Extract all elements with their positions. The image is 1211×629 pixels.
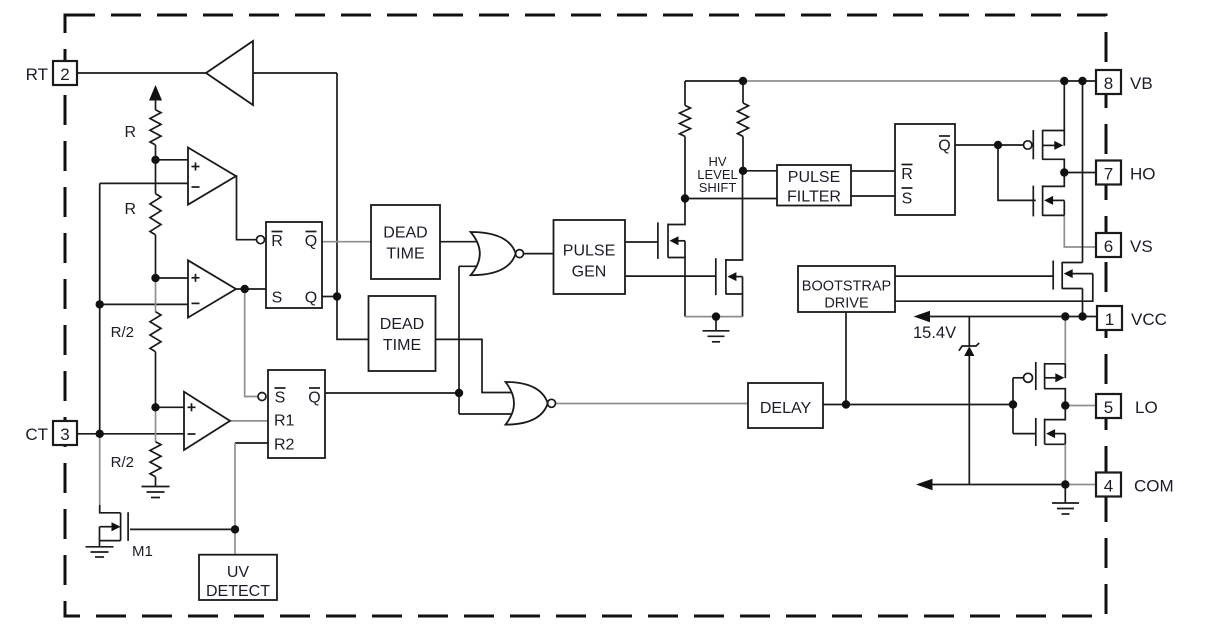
- wire LO gate node verticals: [1013, 377, 1024, 379]
- transistor HO P-FET high side: [1032, 130, 1034, 159]
- wire CT pin to comparator3 - input: [77, 433, 184, 435]
- svg-text:COM: COM: [1134, 477, 1174, 496]
- gate NOR1: [471, 232, 516, 275]
- wire latch1 Qbar to DEAD TIME 1: [322, 241, 371, 243]
- svg-text:Q: Q: [305, 233, 317, 250]
- wire rail node down to DEAD TIME 2 input: [337, 297, 369, 340]
- transistor level-shift FET A: [657, 222, 659, 259]
- svg-text:VS: VS: [1130, 237, 1153, 256]
- svg-text:DEAD: DEAD: [383, 225, 427, 242]
- pin 7 HO: [1096, 161, 1121, 185]
- wire VCC line: [930, 316, 1099, 318]
- svg-text:R: R: [271, 233, 283, 250]
- zener diode 15.4V: [968, 317, 970, 347]
- wire comparator3 output to latch2 R1 input: [230, 420, 268, 422]
- wire latch2 R2 input: [235, 442, 268, 444]
- wire vertical rail buffer input to latch Q: [336, 73, 338, 297]
- wire comparator2 - input: [100, 303, 188, 305]
- svg-text:1: 1: [1105, 310, 1114, 329]
- wire level shift sources to ground: [685, 316, 743, 318]
- svg-text:5: 5: [1104, 398, 1113, 417]
- transistor LO N-FET: [1035, 418, 1037, 446]
- wire HO output node to pin 7: [1064, 172, 1096, 174]
- wire comparator2 output node down to latch2 Sbar bubble: [245, 289, 258, 397]
- pin 6 VS: [1096, 233, 1121, 257]
- svg-text:R: R: [901, 166, 913, 183]
- wire LO N-FET source down to COM: [1064, 444, 1066, 484]
- wire PULSE FILTER to latch3 Rbar: [851, 170, 895, 172]
- block PULSE FILTER: [777, 165, 851, 206]
- wire bootstrap drive upper output to bootstrap FET gate: [895, 275, 1053, 277]
- ground at COM node: [1064, 485, 1066, 503]
- comparator 1: [188, 148, 236, 205]
- wire HO N-FET gate: [998, 145, 1036, 200]
- block UV DETECT: [199, 555, 277, 600]
- resistor R/2 (lower): [155, 407, 157, 441]
- block DEAD TIME 2: [369, 296, 436, 371]
- svg-text:HO: HO: [1130, 165, 1156, 184]
- svg-text:15.4V: 15.4V: [913, 324, 956, 342]
- wire buffer input from rail: [253, 72, 337, 74]
- svg-text:2: 2: [60, 65, 69, 84]
- pin 4 COM: [1096, 473, 1121, 497]
- bootstrap rail VB to VCC: [1082, 81, 1084, 263]
- svg-text:DEAD: DEAD: [380, 316, 424, 333]
- resistor HV left: [684, 81, 686, 105]
- latch U3 (RS latch 2 with R1 R2): [268, 370, 325, 458]
- svg-text:PULSE: PULSE: [563, 243, 615, 260]
- wire latch2 Qbar output: [325, 392, 459, 394]
- svg-text:M1: M1: [132, 543, 153, 560]
- gate NOR2: [506, 382, 548, 425]
- wire COM line: [932, 484, 1066, 486]
- wire PULSE GEN output 2 to level shift FET B gate: [625, 275, 716, 277]
- svg-text:LO: LO: [1135, 398, 1158, 417]
- svg-text:S: S: [275, 390, 286, 407]
- resistor HV right: [742, 81, 744, 103]
- wire NOR1 input 2 from latch2 Qbar rail: [459, 265, 481, 267]
- svg-text:8: 8: [1104, 74, 1113, 93]
- left feedback rail comparator minus inputs: [99, 183, 101, 433]
- pin 3 CT: [53, 421, 77, 445]
- block DELAY: [748, 383, 823, 428]
- transistor LO P-FET: [1035, 362, 1037, 390]
- svg-text:Q: Q: [308, 390, 320, 407]
- svg-text:DETECT: DETECT: [206, 583, 270, 600]
- wire right resistor node to PULSE FILTER top input: [743, 170, 777, 172]
- wire VS from HO N-FET source to pin 6: [1064, 215, 1096, 247]
- wire latch1 Q output to rail: [322, 296, 337, 298]
- comparator 2: [188, 260, 236, 317]
- transistor HO N-FET: [1032, 186, 1034, 217]
- latch U2 (RS latch 1): [266, 222, 322, 308]
- pin 1 VCC: [1097, 306, 1122, 330]
- svg-text:UV: UV: [227, 564, 250, 581]
- wire R2 node down to UV detect node: [234, 443, 236, 529]
- buffer U1 (RT oscillator buffer): [206, 41, 253, 105]
- svg-text:R2: R2: [274, 437, 295, 454]
- wire PULSE FILTER to latch3 Sbar: [851, 195, 895, 197]
- wire NOR1 output to PULSE GEN: [524, 253, 554, 255]
- svg-text:S: S: [902, 191, 913, 208]
- wire node B to comparator2 + input: [156, 277, 189, 279]
- transistor M1: [120, 513, 122, 541]
- wire VCC node down to LO P-FET source: [1064, 317, 1066, 364]
- ground under M1: [86, 546, 114, 548]
- svg-text:RT: RT: [26, 65, 48, 84]
- svg-text:VB: VB: [1130, 74, 1153, 93]
- svg-text:Q: Q: [938, 138, 950, 155]
- transistor bootstrap FET: [1052, 261, 1054, 290]
- wire DELAY output to LO driver gate node: [823, 404, 1013, 406]
- svg-text:R/2: R/2: [111, 454, 134, 471]
- block BOOTSTRAP DRIVE: [798, 266, 895, 312]
- svg-text:BOOTSTRAP: BOOTSTRAP: [802, 279, 891, 295]
- wire to NOR2 input 2: [459, 413, 516, 415]
- bubble on HO P-FET gate: [1023, 141, 1031, 149]
- svg-text:R: R: [124, 124, 136, 141]
- transistor level-shift FET B: [715, 258, 717, 295]
- svg-text:VCC: VCC: [1131, 310, 1167, 329]
- wire M1 gate to UV node: [130, 528, 235, 530]
- block DEAD TIME 1: [371, 205, 440, 279]
- svg-text:R: R: [124, 201, 136, 218]
- wire VB top rail: [685, 80, 743, 82]
- bubble on LO P-FET gate: [1024, 373, 1033, 382]
- resistor R (upper): [150, 110, 161, 145]
- svg-text:R1: R1: [274, 413, 295, 430]
- svg-text:R/2: R/2: [111, 324, 134, 341]
- ground below R/2 lower: [155, 477, 157, 487]
- svg-text:CT: CT: [25, 425, 48, 444]
- svg-text:S: S: [272, 290, 283, 307]
- wire resistor R to node A: [155, 145, 157, 160]
- svg-text:SHIFT: SHIFT: [699, 180, 737, 195]
- wire LO output node to pin 5: [1065, 405, 1096, 407]
- block PULSE GEN: [554, 220, 626, 294]
- wire latch3 Qbar output to HO driver gates: [955, 144, 1024, 146]
- svg-text:DRIVE: DRIVE: [824, 296, 869, 312]
- wire RT pin to buffer output: [77, 72, 206, 74]
- wire comparator1 - input: [100, 182, 188, 184]
- wire bootstrap drive lower output to bootstrap FET source: [895, 274, 1093, 302]
- svg-text:FILTER: FILTER: [787, 189, 841, 206]
- wire comparator1 output to latch1 Rbar bubble: [236, 176, 257, 240]
- ground under level shift: [715, 317, 717, 331]
- resistor R/2 (upper): [155, 278, 157, 312]
- wire CT rail down to M1 drain: [99, 434, 101, 505]
- svg-text:DELAY: DELAY: [760, 400, 812, 417]
- svg-text:Q: Q: [305, 290, 317, 307]
- pin 2 RT: [53, 61, 77, 85]
- svg-text:TIME: TIME: [383, 337, 421, 354]
- wire DEAD TIME 2 output to NOR2 input 1: [436, 339, 516, 392]
- junction dots: [151, 156, 159, 164]
- svg-text:6: 6: [1104, 237, 1113, 256]
- wire BOOTSTRAP DRIVE tap from delay line: [845, 312, 847, 405]
- wire node C to comparator3 + input: [156, 406, 185, 408]
- svg-text:GEN: GEN: [572, 264, 607, 281]
- pin 5 LO: [1096, 394, 1121, 418]
- wire PULSE GEN output 1 to level shift FET A gate: [625, 241, 658, 243]
- wire node A to comparator1 + input: [156, 159, 189, 161]
- latch U4 (RS latch high side): [895, 124, 955, 215]
- svg-text:3: 3: [60, 425, 69, 444]
- svg-text:TIME: TIME: [386, 246, 424, 263]
- wire left resistor node to PULSE FILTER bottom input: [685, 198, 777, 200]
- current source arrow at top of resistor string: [149, 85, 162, 101]
- wire NOR2 output to DELAY: [556, 403, 749, 405]
- svg-text:PULSE: PULSE: [788, 169, 840, 186]
- wire comparator2 output to latch1 S input: [236, 288, 266, 290]
- comparator 3: [184, 392, 230, 450]
- svg-text:7: 7: [1104, 165, 1113, 184]
- wire node down to UV DETECT box: [234, 529, 236, 555]
- resistor R (second): [155, 160, 157, 194]
- svg-text:4: 4: [1104, 477, 1113, 496]
- pin 8 VB: [1096, 70, 1121, 94]
- wire DEAD TIME 1 to NOR1 input 1: [440, 241, 480, 243]
